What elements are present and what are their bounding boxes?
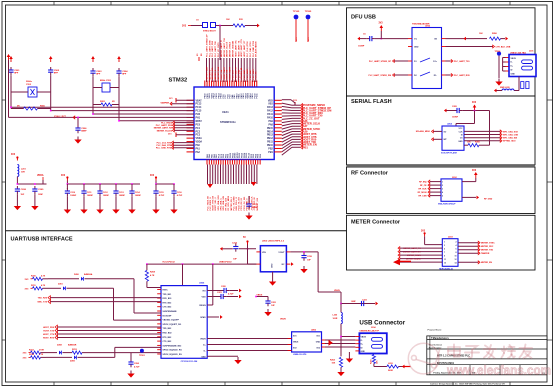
svg-text:STM32F101x: STM32F101x bbox=[220, 120, 236, 124]
svg-text:U2A1: U2A1 bbox=[222, 110, 229, 114]
svg-text:RF_SCK: RF_SCK bbox=[418, 189, 427, 191]
svg-text:VDD: VDD bbox=[268, 100, 273, 102]
svg-text:PLC_UART_RX0: PLC_UART_RX0 bbox=[156, 124, 173, 127]
svg-text:RXD_B02: RXD_B02 bbox=[163, 333, 173, 335]
svg-text:SUSPENDANB: SUSPENDANB bbox=[163, 310, 178, 313]
svg-text:HOST_RX0: HOST_RX0 bbox=[43, 327, 55, 329]
svg-text:I/O2: I/O2 bbox=[316, 348, 320, 350]
svg-text:RTS_B02: RTS_B02 bbox=[163, 302, 173, 304]
svg-text:USBLC6-2P6: USBLC6-2P6 bbox=[293, 354, 307, 356]
svg-text:100NF: 100NF bbox=[70, 195, 77, 197]
svg-text:HOST_UART_CTS: HOST_UART_CTS bbox=[240, 39, 243, 57]
svg-text:2.7K: 2.7K bbox=[39, 354, 44, 356]
svg-text:3: 3 bbox=[444, 245, 445, 247]
svg-text:PLC_UAR: PLC_UAR bbox=[249, 69, 252, 79]
svg-text:PLC_ZC_OUT0: PLC_ZC_OUT0 bbox=[218, 42, 220, 57]
svg-text:SPI1_USA_SDI: SPI1_USA_SDI bbox=[503, 137, 518, 140]
svg-text:GND: GND bbox=[458, 141, 463, 143]
svg-text:SFLASH_MISO0: SFLASH_MISO0 bbox=[255, 40, 258, 57]
svg-text:PB1: PB1 bbox=[303, 145, 309, 149]
svg-text:PLC_UART_: PLC_UART_ bbox=[246, 67, 249, 80]
svg-text:Project Name: Project Name bbox=[428, 329, 443, 332]
svg-text:PLC_DA0_RT00: PLC_DA0_RT00 bbox=[249, 41, 252, 57]
svg-text:VCC/CP2102: VCC/CP2102 bbox=[162, 261, 175, 263]
svg-text:PB14: PB14 bbox=[267, 130, 274, 133]
svg-text:VBUS02_EQUIPP: VBUS02_EQUIPP bbox=[163, 320, 180, 322]
svg-text:PLC_CLK: PLC_CLK bbox=[233, 70, 235, 80]
svg-text:TP206: TP206 bbox=[495, 51, 502, 53]
svg-text:RF_IRQ: RF_IRQ bbox=[419, 182, 427, 184]
svg-text:SPI1_USA_SCK: SPI1_USA_SCK bbox=[217, 195, 220, 211]
svg-text:HOST_UART: HOST_UART bbox=[229, 66, 232, 79]
svg-text:SUSPENDANB_B02: SUSPENDANB_B02 bbox=[163, 344, 183, 347]
svg-text:METER_UART_RX: METER_UART_RX bbox=[154, 127, 173, 130]
svg-text:SFTWD_SDO: SFTWD_SDO bbox=[503, 141, 516, 143]
svg-text:METER_SCL: METER_SCL bbox=[212, 66, 214, 79]
svg-text:HOST_TX0: HOST_TX0 bbox=[43, 330, 55, 332]
svg-text:15K: 15K bbox=[332, 363, 336, 365]
svg-text:PB13: PB13 bbox=[267, 135, 274, 137]
svg-text:HDR1254X2-01: HDR1254X2-01 bbox=[439, 267, 454, 270]
svg-text:PLC_UAR: PLC_UAR bbox=[243, 69, 246, 79]
svg-text:VIN: VIN bbox=[262, 252, 266, 254]
svg-text:METER_UAR: METER_UAR bbox=[205, 66, 208, 79]
svg-text:SPIO2_BQ2G2D_RG: SPIO2_BQ2G2D_RG bbox=[163, 354, 183, 356]
svg-text:PLC_CMD: PLC_CMD bbox=[238, 69, 240, 79]
svg-text:PB12: PB12 bbox=[267, 138, 274, 140]
svg-text:METER_S: METER_S bbox=[215, 69, 217, 79]
svg-text:PC3: PC3 bbox=[196, 135, 201, 137]
svg-text:TXD_RX0: TXD_RX0 bbox=[38, 297, 48, 299]
svg-text:METER_U: METER_U bbox=[209, 69, 211, 79]
svg-text:D1-: D1- bbox=[434, 75, 438, 77]
svg-text:R208: R208 bbox=[150, 272, 156, 274]
svg-text:PA9: PA9 bbox=[268, 120, 273, 123]
svg-text:PLC_UART_: PLC_UART_ bbox=[252, 67, 255, 80]
svg-text:8PF: 8PF bbox=[122, 73, 127, 75]
svg-text:TAMPER: TAMPER bbox=[160, 101, 169, 104]
svg-text:PLC_UART_STM: PLC_UART_STM bbox=[208, 40, 211, 57]
svg-text:VBAT: VBAT bbox=[196, 99, 203, 102]
svg-text:REGIN: REGIN bbox=[199, 305, 206, 307]
svg-text:3V3: 3V3 bbox=[11, 154, 16, 156]
svg-text:PC0: PC0 bbox=[196, 124, 201, 126]
svg-text:PC15: PC15 bbox=[196, 111, 203, 113]
svg-text:RF Connector: RF Connector bbox=[351, 171, 389, 177]
svg-text:I/O1: I/O1 bbox=[316, 336, 320, 338]
svg-text:10NF: 10NF bbox=[38, 194, 44, 196]
svg-text:VBUS: VBUS bbox=[293, 342, 299, 344]
svg-text:C209: C209 bbox=[38, 189, 44, 191]
svg-text:10: 10 bbox=[455, 255, 457, 257]
svg-text:HOST_UART_RT: HOST_UART_RT bbox=[243, 40, 246, 57]
svg-text:Y202: Y202 bbox=[26, 84, 32, 86]
svg-text:4: 4 bbox=[456, 244, 457, 247]
svg-text:100NF: 100NF bbox=[452, 117, 459, 119]
svg-text:VCC: VCC bbox=[459, 128, 464, 130]
svg-text:TP205: TP205 bbox=[305, 11, 312, 13]
svg-text:3V3: 3V3 bbox=[379, 23, 384, 25]
svg-text:I/O1: I/O1 bbox=[293, 336, 297, 338]
svg-text:5: 5 bbox=[442, 196, 443, 198]
svg-text:VBUS: VBUS bbox=[334, 290, 340, 292]
svg-text:PLC_CMD_RT00: PLC_CMD_RT00 bbox=[253, 40, 255, 57]
svg-text:C504: C504 bbox=[122, 70, 128, 73]
svg-text:METER_TXD: METER_TXD bbox=[481, 250, 494, 252]
svg-text:PB2: PB2 bbox=[268, 148, 273, 150]
svg-text:PB11: PB11 bbox=[267, 142, 273, 144]
svg-text:BAW56R: BAW56R bbox=[68, 344, 77, 347]
svg-text:SMC_TX0: SMC_TX0 bbox=[37, 301, 47, 303]
svg-text:3V3: 3V3 bbox=[182, 26, 187, 28]
svg-text:10K: 10K bbox=[226, 19, 230, 21]
svg-text:4.7K: 4.7K bbox=[41, 284, 46, 287]
svg-text:COMP: COMP bbox=[358, 46, 365, 48]
svg-text:PB15: PB15 bbox=[267, 128, 274, 130]
svg-text:3V3: 3V3 bbox=[472, 102, 477, 104]
svg-text:METER_SDA: METER_SDA bbox=[217, 66, 220, 79]
svg-text:RF_GND: RF_GND bbox=[484, 198, 493, 200]
svg-text:RTS_B02: RTS_B02 bbox=[163, 337, 173, 339]
svg-text:10K: 10K bbox=[479, 33, 483, 35]
svg-text:METER_SYNC0: METER_SYNC0 bbox=[230, 41, 232, 57]
svg-text:9: 9 bbox=[444, 255, 445, 257]
svg-text:SMA-KWE-WTALP: SMA-KWE-WTALP bbox=[438, 203, 456, 206]
svg-text:VSSA: VSSA bbox=[196, 137, 203, 140]
svg-text:4.7UF: 4.7UF bbox=[228, 293, 234, 296]
svg-text:HOST_UART: HOST_UART bbox=[223, 66, 226, 79]
svg-text:68NF: 68NF bbox=[81, 130, 87, 132]
svg-text:METER_SCLK0: METER_SCLK0 bbox=[227, 41, 229, 57]
svg-text:VDD: VDD bbox=[201, 297, 206, 299]
svg-text:U203 LM1117MPX-3.3: U203 LM1117MPX-3.3 bbox=[262, 241, 285, 243]
svg-text:VBUS: VBUS bbox=[511, 58, 517, 60]
svg-text:CYR_BLK_USB: CYR_BLK_USB bbox=[496, 46, 511, 48]
svg-text:PLC_ZC_: PLC_ZC_ bbox=[256, 70, 258, 80]
svg-text:www.elecfans.com: www.elecfans.com bbox=[446, 364, 551, 378]
svg-text:NC/SUSP: NC/SUSP bbox=[163, 315, 173, 317]
svg-text:VSS: VSS bbox=[268, 104, 273, 106]
svg-text:100NF: 100NF bbox=[119, 195, 126, 197]
svg-text:CTS_B02: CTS_B02 bbox=[163, 307, 173, 309]
svg-text:PLC_UART_STM32_DM: PLC_UART_STM32_DM bbox=[369, 74, 392, 77]
svg-text:GND: GND bbox=[272, 263, 274, 268]
svg-text:1: 1 bbox=[442, 182, 443, 184]
svg-text:PB1: PB1 bbox=[268, 152, 273, 154]
svg-text:GND: GND bbox=[201, 356, 206, 358]
svg-text:D-: D- bbox=[204, 351, 206, 353]
svg-text:VBUS: VBUS bbox=[200, 339, 206, 341]
svg-text:10K: 10K bbox=[467, 142, 471, 144]
svg-text:VDDA: VDDA bbox=[196, 141, 203, 144]
svg-text:U205: U205 bbox=[311, 330, 317, 332]
svg-text:100NF: 100NF bbox=[103, 195, 110, 197]
svg-text:PA8: PA8 bbox=[268, 123, 273, 126]
svg-text:4.7K: 4.7K bbox=[150, 274, 155, 277]
svg-text:PLC_UART_RX0: PLC_UART_RX0 bbox=[211, 40, 214, 57]
svg-text:PLC_UART_RX0: PLC_UART_RX0 bbox=[454, 74, 471, 77]
svg-text:5: 5 bbox=[444, 248, 445, 250]
svg-text:PLC_DA0_RT0: PLC_DA0_RT0 bbox=[156, 144, 171, 147]
svg-text:4.7K: 4.7K bbox=[41, 275, 46, 278]
svg-text:TXD_B02: TXD_B02 bbox=[163, 328, 173, 330]
svg-text:L201: L201 bbox=[21, 169, 27, 171]
svg-text:5V: 5V bbox=[243, 237, 246, 239]
svg-text:PC1: PC1 bbox=[196, 128, 201, 130]
svg-text:USB Connector: USB Connector bbox=[359, 320, 405, 327]
svg-text:SPIO2_EQUIPP_RG: SPIO2_EQUIPP_RG bbox=[163, 324, 182, 326]
svg-text:CP2102-F01-GM: CP2102-F01-GM bbox=[181, 361, 198, 363]
svg-text:PC11: PC11 bbox=[257, 93, 259, 99]
svg-text:METER Connector: METER Connector bbox=[351, 220, 401, 226]
svg-text:UART/USB INTERFACE: UART/USB INTERFACE bbox=[11, 237, 73, 243]
svg-text:SFLASH_MISO: SFLASH_MISO bbox=[416, 130, 431, 133]
svg-text:10R: 10R bbox=[21, 172, 25, 174]
svg-text:SFLASH_MI: SFLASH_MI bbox=[240, 67, 243, 79]
svg-text:VOUT: VOUT bbox=[278, 252, 285, 254]
svg-text:CLK: CLK bbox=[459, 131, 464, 133]
svg-text:RSTb: RSTb bbox=[163, 290, 169, 292]
svg-text:VIO: VIO bbox=[202, 291, 206, 293]
svg-text:GND: GND bbox=[316, 342, 321, 344]
svg-text:PC2: PC2 bbox=[196, 131, 201, 133]
svg-text:7: 7 bbox=[444, 252, 445, 254]
svg-text:4.7UF: 4.7UF bbox=[159, 194, 165, 197]
svg-text:SPI1_USA_SCK: SPI1_USA_SCK bbox=[503, 130, 519, 133]
svg-text:TXD_B01: TXD_B01 bbox=[163, 294, 173, 296]
svg-text:PLC_UART_STM32_DP: PLC_UART_STM32_DP bbox=[369, 60, 392, 63]
svg-text:U206: U206 bbox=[199, 282, 205, 284]
svg-text:METER_UART_R: METER_UART_R bbox=[220, 40, 223, 57]
svg-text:PA10: PA10 bbox=[267, 117, 273, 120]
svg-text:3V3: 3V3 bbox=[168, 134, 171, 136]
svg-text:6: 6 bbox=[456, 248, 457, 250]
svg-text:PA12: PA12 bbox=[267, 110, 273, 113]
svg-text:STM32: STM32 bbox=[169, 78, 188, 84]
svg-text:METER_RXC: METER_RXC bbox=[481, 246, 494, 248]
svg-text:PA1: PA1 bbox=[196, 147, 201, 150]
svg-text:HOST_UA: HOST_UA bbox=[226, 69, 229, 79]
svg-text:METER_EN: METER_EN bbox=[481, 262, 492, 264]
svg-text:SPIO2_BQ2G2D_RG: SPIO2_BQ2G2D_RG bbox=[163, 350, 183, 352]
svg-text:RF_MOSI: RF_MOSI bbox=[418, 192, 427, 194]
svg-text:NRST: NRST bbox=[196, 121, 203, 123]
svg-text:RF_CSN: RF_CSN bbox=[418, 196, 427, 198]
svg-text:4.7UF: 4.7UF bbox=[177, 194, 183, 197]
svg-text:1: 1 bbox=[444, 241, 445, 243]
svg-text:PA11: PA11 bbox=[267, 113, 273, 116]
svg-text:PLC_DA0_R: PLC_DA0_R bbox=[234, 67, 237, 79]
svg-text:USB/MICRO-AB-TYP: USB/MICRO-AB-TYP bbox=[359, 329, 379, 332]
svg-text:12: 12 bbox=[455, 259, 457, 261]
svg-text:3V3: 3V3 bbox=[61, 175, 66, 177]
svg-text:2: 2 bbox=[442, 185, 443, 187]
svg-text:PA0: PA0 bbox=[196, 144, 201, 147]
svg-text:SERIAL FLASH: SERIAL FLASH bbox=[351, 99, 392, 105]
svg-text:PH0: PH0 bbox=[196, 114, 201, 116]
svg-text:4: 4 bbox=[442, 191, 443, 194]
svg-text:SOIC/SPI FLASH: SOIC/SPI FLASH bbox=[441, 151, 457, 154]
svg-text:TP201: TP201 bbox=[139, 355, 146, 357]
svg-text:GND: GND bbox=[414, 47, 419, 49]
svg-text:3V3: 3V3 bbox=[169, 98, 172, 100]
svg-text:HOST_UA: HOST_UA bbox=[220, 69, 223, 79]
svg-text:SPI1_USA_SDI: SPI1_USA_SDI bbox=[222, 196, 225, 211]
svg-text:3V3: 3V3 bbox=[150, 175, 155, 177]
svg-text:560R: 560R bbox=[388, 370, 393, 372]
svg-text:TP105: TP105 bbox=[293, 11, 300, 13]
svg-text:STM32 BOOT: STM32 BOOT bbox=[203, 31, 217, 33]
svg-text:TS5USBA33DGBR: TS5USBA33DGBR bbox=[412, 23, 430, 26]
svg-text:PA13: PA13 bbox=[267, 106, 273, 109]
svg-text:100NF: 100NF bbox=[252, 207, 259, 209]
svg-text:METER_SYNC: METER_SYNC bbox=[481, 243, 495, 245]
svg-text:SPAD: SPAD bbox=[200, 316, 206, 319]
svg-text:SPI1_USA_CSN: SPI1_USA_CSN bbox=[503, 133, 519, 136]
svg-text:3: 3 bbox=[442, 189, 443, 191]
svg-text:SPI1_USA_C: SPI1_USA_C bbox=[219, 197, 222, 210]
svg-text:10NF: 10NF bbox=[351, 301, 357, 303]
svg-text:PLC_UART_TX0: PLC_UART_TX0 bbox=[214, 40, 217, 57]
svg-text:VBUS: VBUS bbox=[280, 318, 286, 320]
svg-text:100R: 100R bbox=[333, 318, 338, 320]
svg-text:BAW56A: BAW56A bbox=[84, 273, 93, 276]
svg-text:14: 14 bbox=[455, 261, 457, 264]
svg-text:PA2: PA2 bbox=[196, 151, 201, 154]
svg-text:Cadence Design Systems Inc. 13: Cadence Design Systems Inc. 13221 SW 68t… bbox=[430, 382, 505, 385]
svg-text:270R: 270R bbox=[39, 349, 44, 351]
svg-text:DFU USB: DFU USB bbox=[351, 15, 376, 21]
svg-text:RXD_B01: RXD_B01 bbox=[163, 298, 173, 300]
svg-text:R216: R216 bbox=[371, 359, 373, 364]
svg-text:PLC_CLK_RT00: PLC_CLK_RT00 bbox=[247, 41, 249, 57]
svg-text:C208: C208 bbox=[21, 189, 27, 191]
svg-text:3V3: 3V3 bbox=[421, 230, 426, 232]
svg-text:HOST_UART_TX: HOST_UART_TX bbox=[237, 40, 240, 57]
svg-text:PC13: PC13 bbox=[196, 104, 203, 106]
svg-text:8MHz Y203: 8MHz Y203 bbox=[100, 80, 112, 82]
svg-text:HOST_RTS: HOST_RTS bbox=[43, 337, 55, 339]
svg-text:METER_UART_TX0: METER_UART_TX0 bbox=[223, 37, 226, 57]
svg-text:PH1: PH1 bbox=[196, 118, 201, 120]
svg-text:RF_CE: RF_CE bbox=[420, 185, 427, 187]
svg-text:PB10: PB10 bbox=[267, 145, 274, 147]
svg-text:VBUS: VBUS bbox=[361, 337, 367, 339]
svg-text:11: 11 bbox=[444, 259, 446, 261]
svg-text:100NF: 100NF bbox=[135, 195, 142, 197]
svg-text:100NF: 100NF bbox=[87, 195, 94, 197]
svg-text:32kHz: 32kHz bbox=[26, 81, 32, 83]
svg-text:XTAL2_RXT: XTAL2_RXT bbox=[54, 115, 66, 118]
svg-text:GND: GND bbox=[361, 351, 366, 353]
svg-text:GND: GND bbox=[511, 73, 516, 75]
svg-text:CTS_B02: CTS_B02 bbox=[163, 341, 173, 343]
svg-text:3V3: 3V3 bbox=[472, 170, 477, 172]
svg-text:8PF: 8PF bbox=[96, 73, 101, 75]
svg-text:HOST_CTS: HOST_CTS bbox=[43, 334, 55, 336]
svg-text:TAMPER: TAMPER bbox=[481, 252, 490, 255]
svg-text:METER_SCLK0: METER_SCLK0 bbox=[157, 130, 173, 132]
svg-text:USB/CP2102: USB/CP2102 bbox=[219, 261, 232, 263]
svg-text:4.7UF: 4.7UF bbox=[134, 365, 140, 368]
svg-text:8: 8 bbox=[456, 252, 457, 254]
svg-text:VDDA: VDDA bbox=[37, 174, 44, 177]
svg-text:USB/DC AB-TBA: USB/DC AB-TBA bbox=[510, 51, 526, 54]
svg-text:U202: U202 bbox=[425, 26, 431, 28]
svg-text:U204: U204 bbox=[447, 123, 453, 126]
svg-text:T:Manufacturers: T:Manufacturers bbox=[431, 337, 449, 340]
svg-text:PLC_CMD_RT0: PLC_CMD_RT0 bbox=[156, 148, 172, 150]
svg-text:8PF: 8PF bbox=[54, 72, 59, 74]
svg-text:8PF: 8PF bbox=[14, 72, 19, 74]
svg-text:PLC_UART_TX0: PLC_UART_TX0 bbox=[454, 60, 470, 63]
svg-text:HOST_UART_RX: HOST_UART_RX bbox=[234, 40, 237, 57]
svg-text:PC14: PC14 bbox=[196, 106, 203, 109]
svg-text:13: 13 bbox=[444, 262, 446, 264]
svg-text:METER_SDATA0: METER_SDATA0 bbox=[232, 40, 235, 57]
svg-text:I/O2: I/O2 bbox=[293, 348, 297, 350]
svg-text:PLC_UART_STM32_DP: PLC_UART_STM32_DP bbox=[205, 34, 208, 57]
svg-text:2: 2 bbox=[456, 241, 457, 243]
